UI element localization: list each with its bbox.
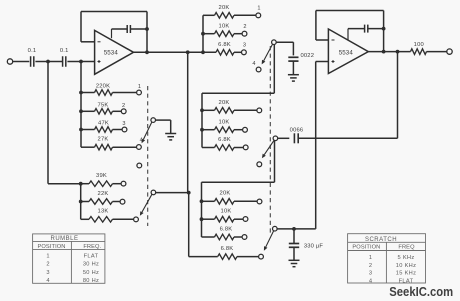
wire C2 to node B <box>67 61 81 63</box>
contact scratch-b 10K <box>243 127 248 132</box>
svg-text:0066: 0066 <box>290 127 304 133</box>
svg-text:1: 1 <box>138 84 141 90</box>
node 330uF junction <box>292 227 296 231</box>
svg-text:20K: 20K <box>219 100 230 106</box>
svg-text:2: 2 <box>46 262 49 268</box>
capacitor C6 330uF <box>293 229 295 243</box>
wire node A to C2 <box>48 61 62 63</box>
node bus 39K <box>79 182 83 186</box>
wire C5 to feedback node <box>298 137 397 139</box>
resistor R7 13K <box>81 218 89 220</box>
svg-text:13K: 13K <box>98 209 109 215</box>
scratch table frame <box>348 234 426 283</box>
svg-text:39K: 39K <box>96 173 107 179</box>
contact rumble-b open <box>137 163 142 168</box>
wire S2b wiper to bank C rail <box>274 141 276 183</box>
ground C4 <box>288 74 299 76</box>
svg-text:POSITION: POSITION <box>38 244 66 250</box>
svg-text:FLAT: FLAT <box>84 254 99 260</box>
svg-text:1: 1 <box>46 254 49 260</box>
wire scratch bank C bus <box>201 182 203 237</box>
resistor R6 22K <box>81 201 89 203</box>
scratch switch linkage dashed <box>269 46 271 235</box>
resistor R3 47K <box>81 129 95 131</box>
contact scratch-c 20K <box>257 199 262 204</box>
contact scratch 1 <box>256 13 261 18</box>
output terminal J2 <box>447 49 452 54</box>
ground C6 <box>289 259 300 261</box>
wire S2a wiper to bank B rail <box>273 45 275 94</box>
svg-text:22K: 22K <box>98 191 109 197</box>
node S1b junction <box>187 191 191 195</box>
svg-text:30 Hz: 30 Hz <box>83 262 99 268</box>
node U2 output branch <box>396 50 400 54</box>
svg-text:75K: 75K <box>98 102 109 108</box>
contact scratch 3 <box>242 50 247 55</box>
node busC 20K <box>200 199 204 203</box>
node U1 output-feedback junction <box>145 50 149 54</box>
svg-text:6.8K: 6.8K <box>218 42 231 48</box>
node A junction <box>46 60 50 64</box>
switch S2c wiper <box>273 226 278 231</box>
svg-text:20K: 20K <box>220 191 231 197</box>
resistor R4 27K <box>81 146 95 148</box>
wire scratch bank B bus <box>201 93 203 147</box>
contact scratch-b open <box>257 162 262 167</box>
svg-text:6.8K: 6.8K <box>218 137 231 143</box>
switch S1b wiper <box>151 190 156 195</box>
wire bank B bus <box>80 184 82 220</box>
wire U1 inverting input from feedback <box>81 41 95 43</box>
node busA 10K <box>201 32 205 36</box>
node busC 10K <box>200 217 204 221</box>
svg-text:0.1: 0.1 <box>60 48 69 54</box>
svg-text:10K: 10K <box>219 119 230 125</box>
svg-text:80 Hz: 80 Hz <box>83 278 99 284</box>
wire U2 feedback loop top <box>316 10 384 12</box>
op-amp U2 5534 <box>328 29 368 74</box>
switch S1a wiper <box>151 118 156 123</box>
svg-text:RUMBLE: RUMBLE <box>50 236 78 242</box>
svg-text:5 KHz: 5 KHz <box>398 255 415 261</box>
svg-text:3: 3 <box>46 270 49 276</box>
svg-text:5534: 5534 <box>339 49 354 56</box>
capacitor C4 0022 <box>288 56 298 58</box>
node busB 10K <box>200 128 204 132</box>
svg-text:4: 4 <box>46 278 49 284</box>
svg-text:3: 3 <box>243 43 246 49</box>
node U1 output branch down <box>186 50 190 54</box>
contact rumble 2 <box>121 109 126 114</box>
contact rumble 1 <box>137 90 142 95</box>
switch S2b wiper <box>273 136 278 141</box>
rumble switch linkage dashed <box>147 86 149 226</box>
svg-text:20K: 20K <box>219 5 230 11</box>
contact rumble-b 22K <box>120 199 125 204</box>
capacitor C7 U2 feedback <box>347 29 349 41</box>
node U2 feedback cap junction <box>382 27 386 31</box>
resistor R13 10K <box>202 129 215 131</box>
svg-text:POSITION: POSITION <box>352 245 380 251</box>
capacitor C5 0066 <box>293 133 295 143</box>
contact scratch-c 10K <box>243 217 248 222</box>
wire U1 feedback loop right leg <box>146 12 148 53</box>
svg-text:6.8K: 6.8K <box>220 227 233 233</box>
svg-text:2: 2 <box>122 103 125 109</box>
wire U2 output feedback down leg <box>397 52 399 139</box>
svg-text:SeekIC.com: SeekIC.com <box>389 284 453 299</box>
capacitor C2 0.1 <box>62 56 64 67</box>
wire U2 output <box>368 51 410 53</box>
svg-text:3: 3 <box>369 271 372 277</box>
node B junction <box>79 60 83 64</box>
resistor R9 20K <box>203 14 215 16</box>
svg-text:FREQ.: FREQ. <box>83 244 101 250</box>
svg-text:47K: 47K <box>98 121 109 127</box>
wire S1a wiper to ground <box>156 119 171 121</box>
svg-text:2: 2 <box>369 263 372 269</box>
wire C1 to node A <box>35 61 48 63</box>
resistor R12 20K <box>202 109 215 111</box>
wire node A to bank B bus <box>48 183 81 185</box>
svg-text:1: 1 <box>369 255 372 261</box>
svg-text:0.1: 0.1 <box>28 48 37 54</box>
svg-text:SCRATCH: SCRATCH <box>365 237 397 243</box>
wire U2 inverting input <box>316 39 329 41</box>
resistor R18 100 <box>411 49 427 55</box>
svg-text:4: 4 <box>252 61 255 67</box>
svg-text:15 KHz: 15 KHz <box>396 271 416 277</box>
svg-text:330 µF: 330 µF <box>304 244 324 250</box>
input terminal J1 <box>7 59 12 64</box>
svg-text:2: 2 <box>243 24 246 30</box>
wire U1 output <box>134 51 217 53</box>
resistor R15 20K <box>202 200 215 202</box>
wire U1 feedback loop left leg <box>80 12 82 42</box>
contact scratch 2 <box>242 31 247 36</box>
contact rumble-b 39K <box>121 181 126 186</box>
svg-text:4: 4 <box>369 278 372 284</box>
svg-text:5534: 5534 <box>104 50 119 57</box>
resistor R5 39K <box>81 183 89 185</box>
wire U2 noninverting input <box>316 61 329 63</box>
contact scratch-c flat <box>259 254 264 259</box>
svg-text:6.8K: 6.8K <box>221 246 234 252</box>
wire input to C1 <box>13 61 30 63</box>
capacitor C1 0.1 <box>30 56 32 67</box>
wire node A down leg <box>47 62 49 184</box>
svg-text:100: 100 <box>414 42 424 48</box>
resistor R14 6.8K <box>202 147 215 149</box>
capacitor C3 U1 feedback <box>111 29 113 38</box>
wire U1 feedback loop top <box>81 11 147 13</box>
resistor R16 10K <box>202 218 215 220</box>
wire S1b wiper to output drop <box>156 192 189 194</box>
node bus 47K <box>79 128 83 132</box>
svg-text:1: 1 <box>257 6 260 12</box>
svg-text:27K: 27K <box>98 137 109 143</box>
contact rumble-b 13K <box>134 217 139 222</box>
svg-text:3: 3 <box>122 121 125 127</box>
resistor R17 6.8K <box>202 236 215 238</box>
wire U1 output down leg <box>187 52 189 192</box>
rumble table frame <box>33 234 105 283</box>
node bus 22K <box>79 200 83 204</box>
contact scratch-b 6.8K <box>243 145 248 150</box>
svg-text:10K: 10K <box>219 24 230 30</box>
op-amp U1 5534 <box>95 30 134 74</box>
contact scratch-c 6.8K <box>242 235 247 240</box>
resistor R11 6.8K <box>216 50 234 56</box>
node busB 20K <box>200 108 204 112</box>
resistor R10 10K <box>203 33 215 35</box>
wire junction up to U2 + input <box>315 62 317 229</box>
wire S2c wiper to 330uF node <box>277 228 316 230</box>
contact scratch-b 20K <box>257 108 262 113</box>
node bus 220K <box>79 91 83 95</box>
svg-text:10K: 10K <box>221 209 232 215</box>
svg-text:50 Hz: 50 Hz <box>83 270 99 276</box>
wire scratch bank A bus <box>202 15 204 52</box>
resistor R8 6.8K <box>189 256 218 258</box>
contact rumble 4 <box>137 145 142 150</box>
wire U2 feedback loop left leg <box>315 11 317 41</box>
node U1 feedback cap junction <box>145 27 149 31</box>
node scratch busA bottom <box>201 50 205 54</box>
wire U2 feedback loop right leg <box>383 11 385 52</box>
contact rumble 3 <box>122 127 127 132</box>
contact scratch 4 <box>256 67 261 72</box>
svg-text:10 KHz: 10 KHz <box>396 263 416 269</box>
wire node B to op-amp U1 + input <box>81 61 95 63</box>
svg-text:0022: 0022 <box>300 53 314 59</box>
svg-text:220K: 220K <box>96 84 110 90</box>
wire rumble bank A bus <box>80 62 82 148</box>
switch S2a wiper <box>272 40 277 45</box>
ground S1a <box>165 133 176 135</box>
wire S2a wiper to C4 <box>276 41 293 43</box>
node U2 output-feedback junction <box>382 50 386 54</box>
svg-text:FREQ: FREQ <box>398 245 415 251</box>
resistor R2 75K <box>81 110 95 112</box>
wire S2b wiper to C5 <box>278 137 290 139</box>
resistor R1 220K <box>81 92 95 94</box>
node bus 75K <box>79 109 83 113</box>
wire R18 to output terminal <box>427 51 447 53</box>
